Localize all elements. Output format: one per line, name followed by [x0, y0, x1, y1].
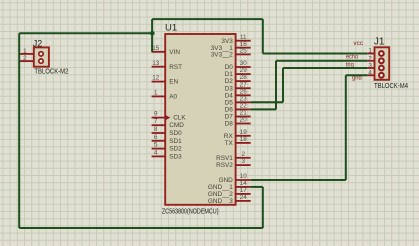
svg-text:25: 25 [240, 48, 248, 55]
U1 pin 2 (RSV1) stub [236, 157, 251, 159]
J1 pin 2 stub [367, 60, 374, 62]
svg-text:TX: TX [225, 140, 234, 147]
svg-text:1: 1 [368, 48, 372, 55]
svg-text:24: 24 [240, 194, 248, 201]
svg-text:17: 17 [240, 187, 248, 194]
svg-text:4: 4 [154, 150, 158, 157]
svg-text:ZC563800(NODEMCU): ZC563800(NODEMCU) [162, 206, 219, 215]
J1 pin 4 terminal circle [379, 73, 384, 78]
U1 pin 1 (A0) stub [152, 95, 166, 97]
svg-text:SD0: SD0 [169, 130, 182, 137]
svg-text:22: 22 [240, 103, 248, 110]
U1 CLK pin arrow marker [165, 115, 170, 120]
U1 pin 4 (SD3) stub [152, 155, 166, 157]
J1 pin 1 stub [367, 53, 374, 55]
svg-text:GND__2: GND__2 [208, 191, 233, 198]
J1 pin 3 terminal circle [379, 66, 384, 71]
U1 pin 21 (D7) stub [236, 116, 251, 118]
svg-text:27: 27 [240, 81, 248, 88]
svg-text:D7: D7 [225, 114, 234, 121]
wire: bottom ground run [19, 227, 263, 229]
wire: gnd vertical [345, 75, 347, 180]
wire: echo run to J1 pin2 [276, 60, 367, 62]
U1 pin 5 (SD2) stub [152, 148, 166, 150]
U1 pin 19 (RX) stub [236, 135, 251, 137]
U1 pin 17 (GND__2) stub [236, 193, 251, 195]
svg-text:D4: D4 [225, 92, 234, 99]
U1 pin 22 (D6) stub [236, 108, 251, 110]
J2 pin 2 stub [18, 60, 33, 62]
svg-text:SD2: SD2 [169, 146, 182, 153]
svg-text:3: 3 [242, 158, 246, 165]
svg-text:1: 1 [154, 90, 158, 97]
svg-text:CLK: CLK [173, 115, 186, 122]
svg-text:vcc: vcc [353, 40, 363, 47]
svg-text:RSV2: RSV2 [216, 162, 233, 169]
wire: D5 stub run to trig vertical [251, 101, 283, 103]
J2 pin 2 terminal circle [39, 59, 43, 63]
svg-text:D3: D3 [225, 85, 234, 92]
U1 pin 25 (3V3__2) stub [236, 53, 251, 55]
U1 pin 10 (GND) stub [236, 179, 251, 181]
U1 pin 15 (VIN) stub [152, 51, 166, 53]
svg-text:GND__1: GND__1 [208, 184, 233, 191]
wire: trig vertical [282, 68, 284, 102]
U1 pin 8 (SD0) stub [152, 132, 166, 134]
U1 pin 29 (D1) stub [236, 73, 251, 75]
svg-text:7: 7 [154, 118, 158, 125]
svg-text:4: 4 [368, 70, 372, 77]
U1 pin 11 (3V3) stub [236, 40, 251, 42]
wire: GND__1 drop vertical [262, 187, 264, 228]
U1 pin 24 (GND__3) stub [236, 200, 251, 202]
U1 pin 16 (3V3__1) stub [236, 47, 251, 49]
J1 pin 3 stub [367, 67, 374, 69]
U1 pin 18 (TX) stub [236, 142, 251, 144]
svg-text:19: 19 [240, 129, 248, 136]
svg-text:RX: RX [224, 133, 234, 140]
svg-text:2: 2 [368, 55, 372, 62]
wire: vcc run to J1 pin1 [263, 53, 368, 55]
wire: trig run to J1 pin3 [283, 67, 367, 69]
svg-text:8: 8 [154, 126, 158, 133]
J2 pin 1 stub [18, 53, 33, 55]
svg-text:SD1: SD1 [169, 138, 182, 145]
wire: GND pin10 run [251, 179, 346, 181]
svg-text:J1: J1 [374, 37, 385, 48]
svg-text:5: 5 [154, 142, 158, 149]
U1 pin 3 (RSV2) stub [236, 164, 251, 166]
svg-text:A0: A0 [169, 94, 177, 101]
svg-text:18: 18 [240, 136, 248, 143]
svg-text:21: 21 [240, 110, 248, 117]
svg-text:TBLOCK-M2: TBLOCK-M2 [34, 66, 68, 75]
svg-text:GND__3: GND__3 [208, 198, 233, 205]
svg-text:TBLOCK-M4: TBLOCK-M4 [374, 81, 408, 90]
svg-text:30: 30 [240, 60, 248, 67]
U1 pin 20 (D8) stub [236, 123, 251, 125]
svg-text:echo: echo [346, 54, 359, 61]
svg-text:2: 2 [242, 151, 246, 158]
junction dot where J2 run meets VIN column [150, 31, 155, 36]
svg-text:1: 1 [23, 48, 27, 55]
svg-text:15: 15 [152, 45, 160, 52]
svg-text:23: 23 [240, 95, 248, 102]
svg-text:3V3__2: 3V3__2 [211, 52, 233, 59]
svg-text:D8: D8 [225, 121, 234, 128]
wire: J2 vertical rail [18, 33, 20, 228]
wire: GND__1 pin14 run [251, 186, 263, 188]
svg-text:14: 14 [240, 180, 248, 187]
IC U1 body: NODEMCU module [165, 34, 235, 205]
svg-text:SD3: SD3 [169, 154, 182, 161]
svg-text:29: 29 [240, 67, 248, 74]
svg-text:D1: D1 [225, 71, 234, 78]
svg-text:D0: D0 [225, 64, 234, 71]
svg-text:U1: U1 [165, 22, 177, 33]
J1 pin 4 stub [367, 74, 374, 76]
svg-text:D6: D6 [225, 107, 234, 114]
U1 pin 12 (EN) stub [152, 81, 166, 83]
U1 pin 27 (D3) stub [236, 87, 251, 89]
svg-text:20: 20 [240, 117, 248, 124]
svg-text:13: 13 [152, 60, 160, 67]
svg-text:EN: EN [169, 79, 178, 86]
svg-text:2: 2 [23, 55, 27, 62]
wire: D6 stub run to echo vertical [251, 108, 276, 110]
U1 pin 30 (D0) stub [236, 66, 251, 68]
svg-text:D2: D2 [225, 78, 234, 85]
U1 pin 28 (D2) stub [236, 80, 251, 82]
J1 pin 1 terminal circle [379, 51, 384, 56]
U1 pin 9 (CLK) stub [152, 117, 166, 119]
U1 pin 7 (CMD) stub [152, 124, 166, 126]
svg-text:9: 9 [154, 111, 158, 118]
svg-text:VIN: VIN [169, 49, 180, 56]
svg-text:6: 6 [154, 134, 158, 141]
svg-text:28: 28 [240, 74, 248, 81]
U1 pin 26 (D4) stub [236, 94, 251, 96]
U1 pin 6 (SD1) stub [152, 140, 166, 142]
U1 pin 23 (D5) stub [236, 101, 251, 103]
svg-text:3V3: 3V3 [221, 38, 233, 45]
svg-text:26: 26 [240, 88, 248, 95]
svg-text:CMD: CMD [169, 122, 184, 129]
connector J1 body: TBLOCK-M4 [375, 47, 390, 80]
wire: top run over U1 [152, 18, 263, 20]
wire: vcc drop vertical [262, 19, 264, 53]
connector J2 body: TBLOCK-M2 [34, 47, 49, 66]
wire: J2 pin1 run to VIN column [19, 32, 152, 34]
svg-text:J2: J2 [33, 39, 43, 49]
U1 pin 14 (GND__1) stub [236, 186, 251, 188]
J2 pin 1 terminal circle [39, 52, 43, 56]
wire: gnd run to J1 pin4 [346, 74, 368, 76]
J1 pin 2 terminal circle [379, 58, 384, 63]
wire: echo vertical [275, 61, 277, 110]
svg-text:12: 12 [152, 75, 160, 82]
svg-text:RSV1: RSV1 [216, 155, 233, 162]
svg-text:D5: D5 [225, 99, 234, 106]
svg-text:11: 11 [240, 34, 247, 41]
U1 pin 13 (RST) stub [152, 66, 166, 68]
wire: VIN column vertical [151, 19, 153, 52]
svg-text:RST: RST [169, 64, 182, 71]
